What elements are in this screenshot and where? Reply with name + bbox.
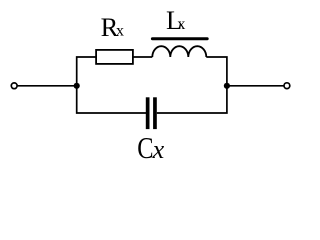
resistor R_x	[96, 50, 133, 64]
svg-text:C: C	[137, 130, 153, 164]
capacitor C_x left plate	[146, 97, 150, 129]
node left junction	[74, 83, 80, 89]
wire top-right branch	[157, 57, 227, 113]
wire left input	[17, 85, 76, 87]
svg-text:x: x	[177, 16, 185, 33]
wire top-left branch	[77, 57, 146, 113]
node right junction	[224, 83, 230, 89]
left terminal	[11, 83, 17, 89]
wire resistor to inductor	[133, 56, 152, 58]
svg-text:x: x	[116, 22, 124, 39]
right terminal	[284, 83, 290, 89]
wire right output	[227, 85, 284, 87]
inductor L_x coil	[152, 46, 206, 57]
svg-text:x: x	[152, 135, 165, 164]
inductor core bar	[152, 37, 207, 40]
capacitor C_x right plate	[153, 97, 157, 129]
